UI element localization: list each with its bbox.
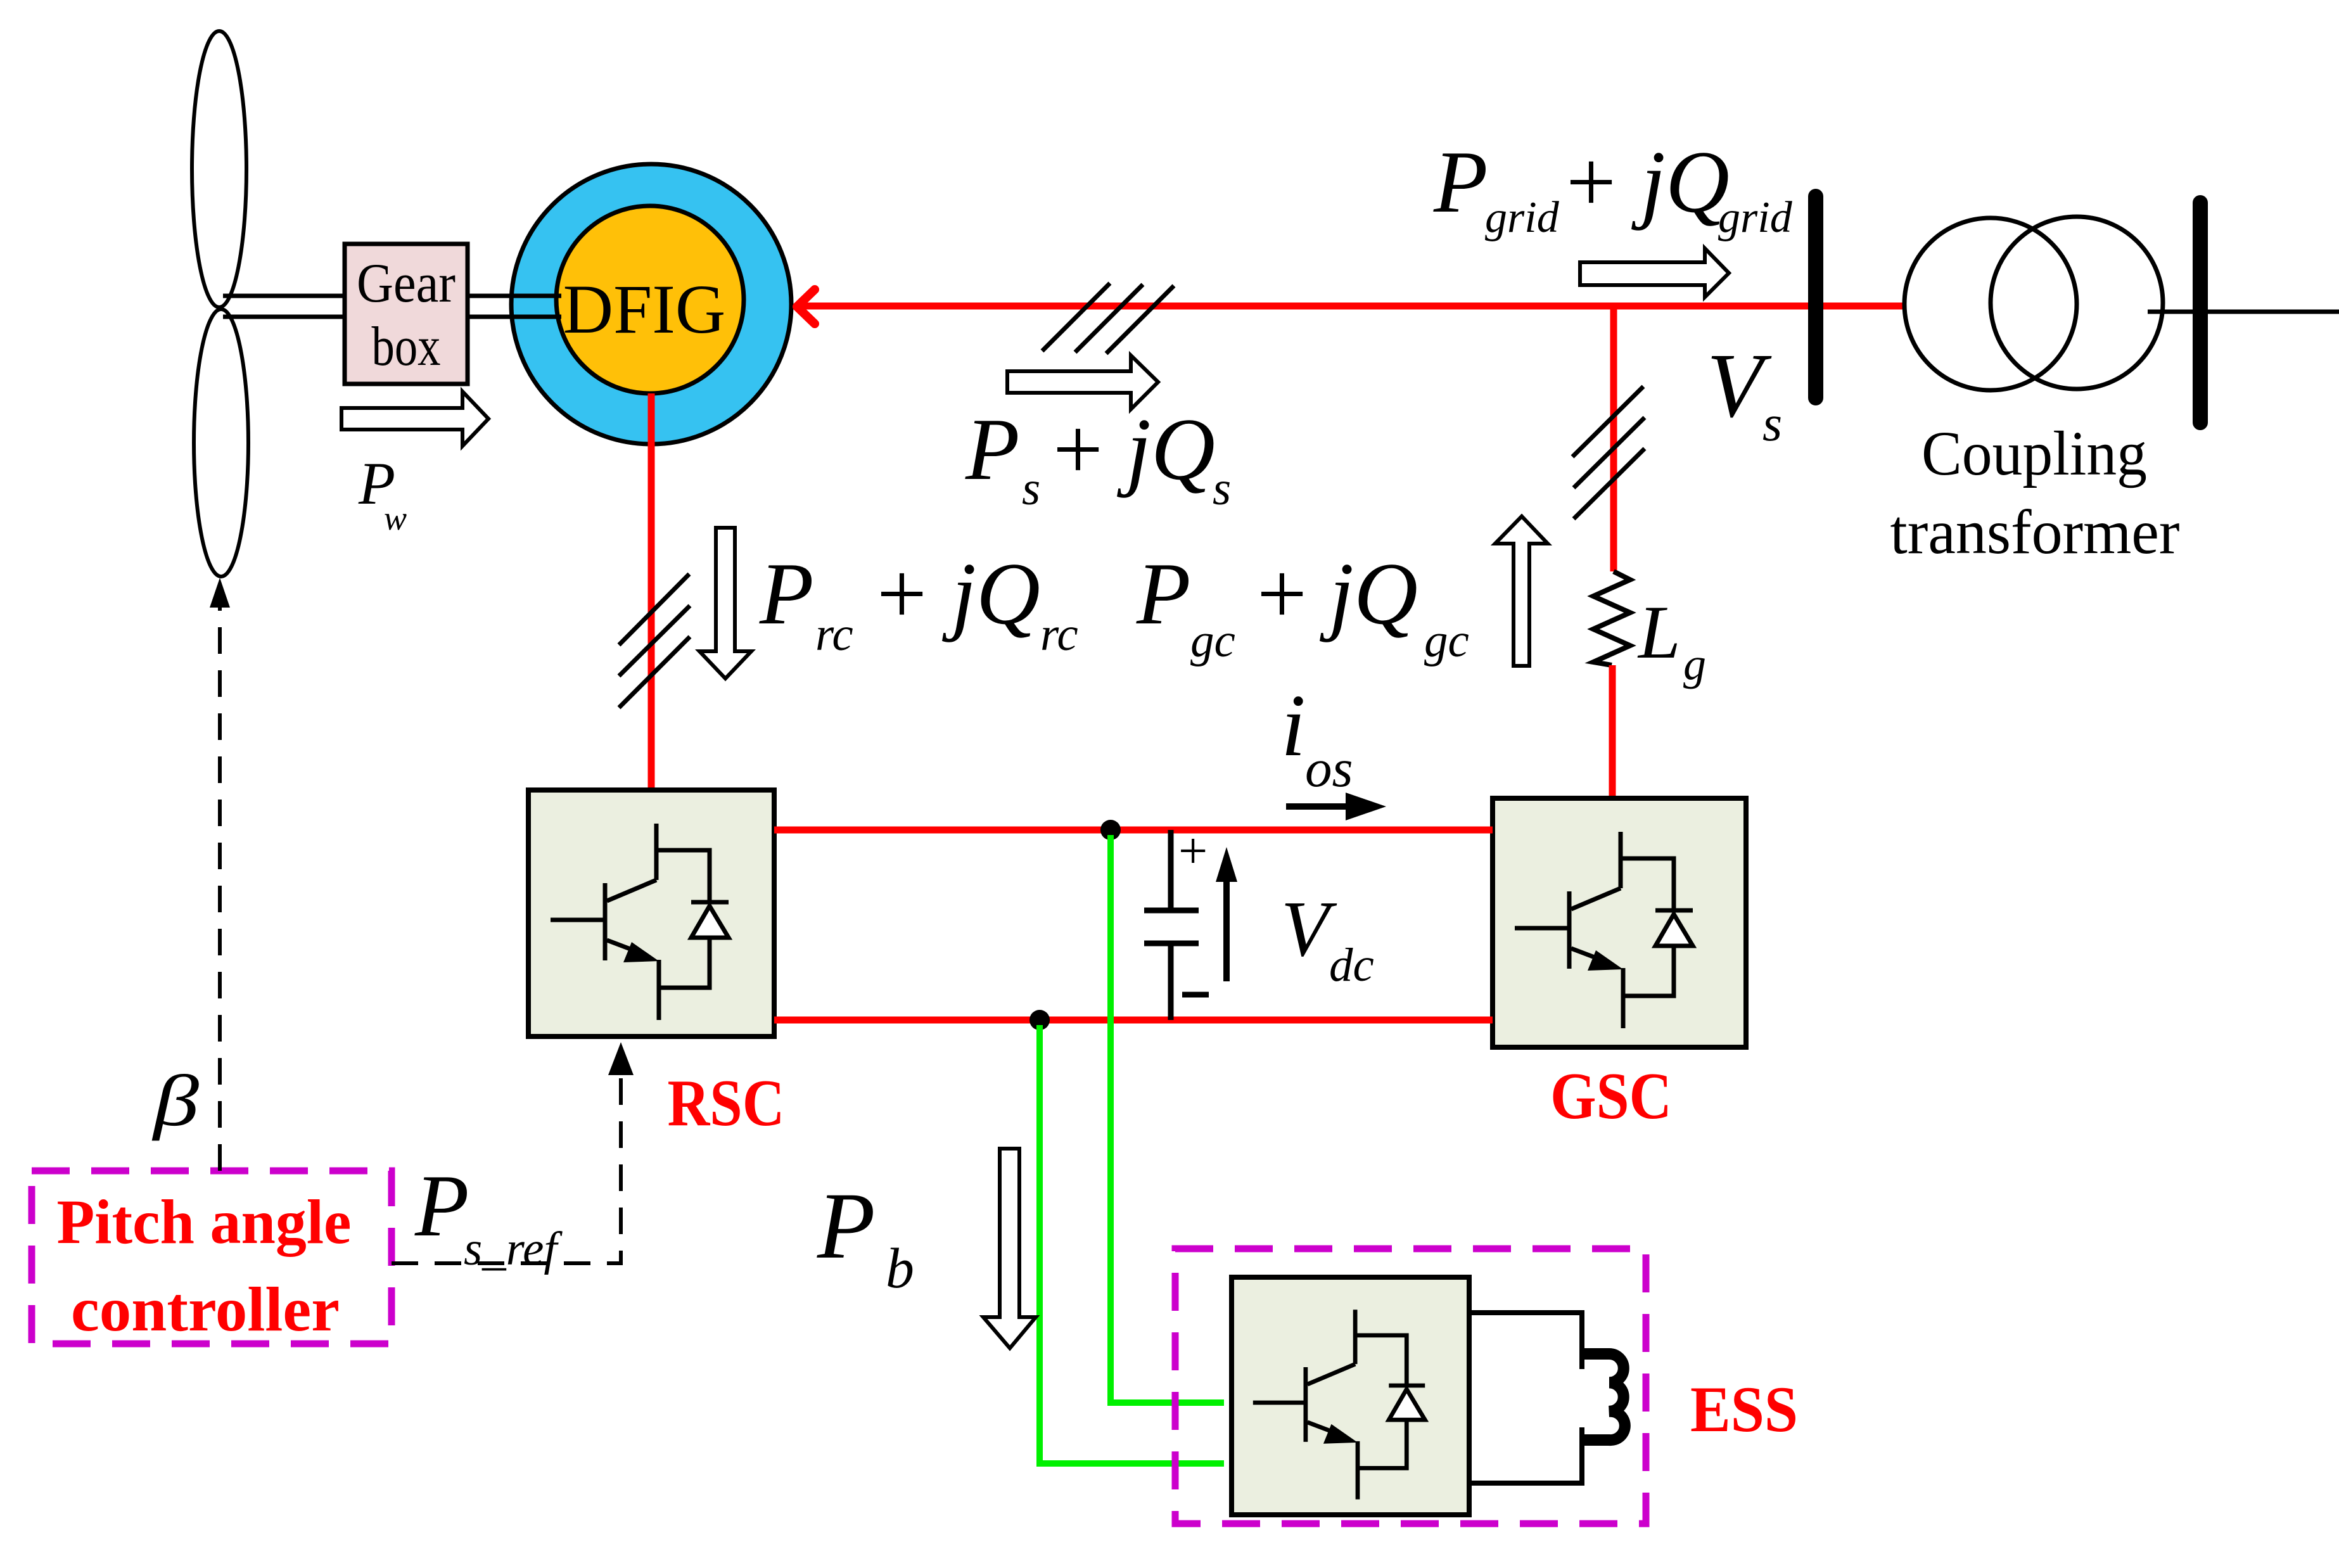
wind turbine blade lower	[194, 309, 248, 577]
svg-text:s: s	[1762, 396, 1782, 452]
i_os arrow	[1286, 803, 1350, 810]
node on negative DC bus	[1029, 1010, 1050, 1030]
svg-text:+: +	[1178, 822, 1208, 879]
DC bus negative wire	[774, 1017, 1493, 1024]
P_grid + jQ_grid label	[1433, 133, 1793, 242]
svg-text:s_ref: s_ref	[464, 1223, 563, 1275]
svg-text:+: +	[877, 545, 927, 643]
bus bar (grid side)	[2193, 203, 2208, 423]
inductor Lg	[1593, 571, 1630, 665]
svg-text:jQ: jQ	[1320, 545, 1418, 643]
Vdc arrow	[1223, 881, 1230, 981]
DFIG stator (outer circle)	[511, 164, 791, 444]
minus label	[1182, 992, 1209, 998]
svg-text:transformer: transformer	[1890, 497, 2180, 567]
svg-text:os: os	[1305, 739, 1353, 798]
svg-text:DFIG: DFIG	[563, 271, 726, 348]
svg-text:P: P	[1136, 545, 1191, 643]
converter RSC box	[528, 790, 774, 1036]
DFIG rotor (inner circle)	[556, 206, 744, 393]
ESS converter box	[1232, 1277, 1469, 1515]
P_s + jQ_s label	[965, 400, 1231, 515]
svg-text:P: P	[759, 545, 814, 643]
beta feedback dashed wire	[218, 589, 222, 1171]
green wire negative to ESS	[1040, 1025, 1224, 1463]
svg-text:P: P	[965, 400, 1020, 499]
svg-text:+: +	[1566, 133, 1616, 231]
rotor wire (DFIG to RSC)	[648, 393, 655, 792]
svg-text:jQ: jQ	[1117, 400, 1215, 499]
svg-text:P: P	[1433, 133, 1488, 231]
gearbox	[345, 244, 468, 384]
svg-text:+: +	[1053, 400, 1103, 499]
svg-text:gc: gc	[1190, 615, 1235, 667]
P_grid arrow	[1580, 248, 1729, 297]
wind turbine blade upper	[192, 31, 246, 307]
svg-text:rc: rc	[815, 608, 853, 661]
svg-text:Coupling: Coupling	[1922, 418, 2147, 488]
DC bus positive wire	[774, 827, 1493, 834]
IGBT in ESS	[1253, 1310, 1425, 1499]
svg-text:s: s	[1213, 462, 1231, 515]
arrowhead into DFIG	[797, 290, 815, 324]
svg-text:P: P	[414, 1157, 469, 1255]
svg-text:ESS: ESS	[1690, 1374, 1798, 1446]
P_gc arrow (up)	[1495, 516, 1548, 666]
svg-text:b: b	[886, 1237, 914, 1300]
svg-text:gc: gc	[1424, 615, 1469, 667]
wire transformer to grid edge	[2148, 310, 2339, 314]
Ps_ref dashed wire	[392, 1052, 621, 1263]
svg-text:box: box	[372, 316, 441, 378]
svg-text:Pitch angle: Pitch angle	[57, 1187, 352, 1257]
shaft (gearbox to DFIG)	[468, 296, 561, 317]
IGBT in GSC	[1515, 832, 1693, 1028]
svg-text:jQ: jQ	[942, 545, 1040, 643]
svg-text:grid: grid	[1485, 193, 1560, 242]
P_rc + jQ_rc label	[759, 545, 1078, 661]
svg-text:g: g	[1683, 639, 1706, 689]
svg-text:β: β	[151, 1061, 199, 1141]
capacitor C (DC link)	[1144, 830, 1199, 1020]
svg-text:jQ: jQ	[1631, 133, 1730, 231]
svg-text:w: w	[384, 499, 407, 537]
P_s arrow	[1007, 355, 1158, 409]
svg-text:grid: grid	[1718, 193, 1793, 242]
three-phase slashes GSC branch	[1572, 386, 1645, 519]
RSC control arrow	[608, 1042, 634, 1075]
P_w arrow	[341, 392, 488, 446]
svg-text:i: i	[1281, 677, 1306, 775]
three-phase slashes rotor line	[619, 574, 690, 708]
svg-text:s: s	[1022, 462, 1040, 515]
IGBT in RSC	[551, 824, 729, 1020]
svg-text:+: +	[1257, 545, 1307, 643]
pitch angle controller box (dashed)	[32, 1171, 392, 1344]
svg-text:dc: dc	[1329, 939, 1374, 991]
svg-text:L: L	[1637, 590, 1681, 674]
bus bar (stator side)	[1808, 196, 1823, 398]
P_rc arrow (down)	[699, 528, 751, 679]
svg-text:P: P	[817, 1173, 876, 1278]
turbine shaft (blades to gearbox)	[223, 296, 345, 317]
three-phase slashes stator line	[1042, 283, 1174, 354]
coupling transformer	[1904, 218, 2077, 390]
wire grid bus down to Lg	[1610, 306, 1617, 571]
svg-text:RSC: RSC	[668, 1066, 785, 1140]
converter GSC box	[1493, 798, 1746, 1047]
ESS enclosure (dashed)	[1175, 1249, 1646, 1524]
node on positive DC bus	[1100, 820, 1121, 840]
svg-text:Gear: Gear	[357, 253, 456, 314]
wire Lg to GSC	[1609, 665, 1616, 800]
green wire positive to ESS	[1111, 835, 1224, 1403]
svg-text:controller: controller	[71, 1274, 340, 1344]
svg-text:rc: rc	[1040, 608, 1078, 661]
ESS inductor / storage coil	[1469, 1313, 1582, 1483]
P_b arrow (down)	[983, 1149, 1036, 1348]
stator wire (DFIG to transformer)	[803, 303, 1906, 310]
P_gc + jQ_gc label	[1136, 545, 1469, 667]
svg-text:GSC: GSC	[1550, 1059, 1672, 1133]
